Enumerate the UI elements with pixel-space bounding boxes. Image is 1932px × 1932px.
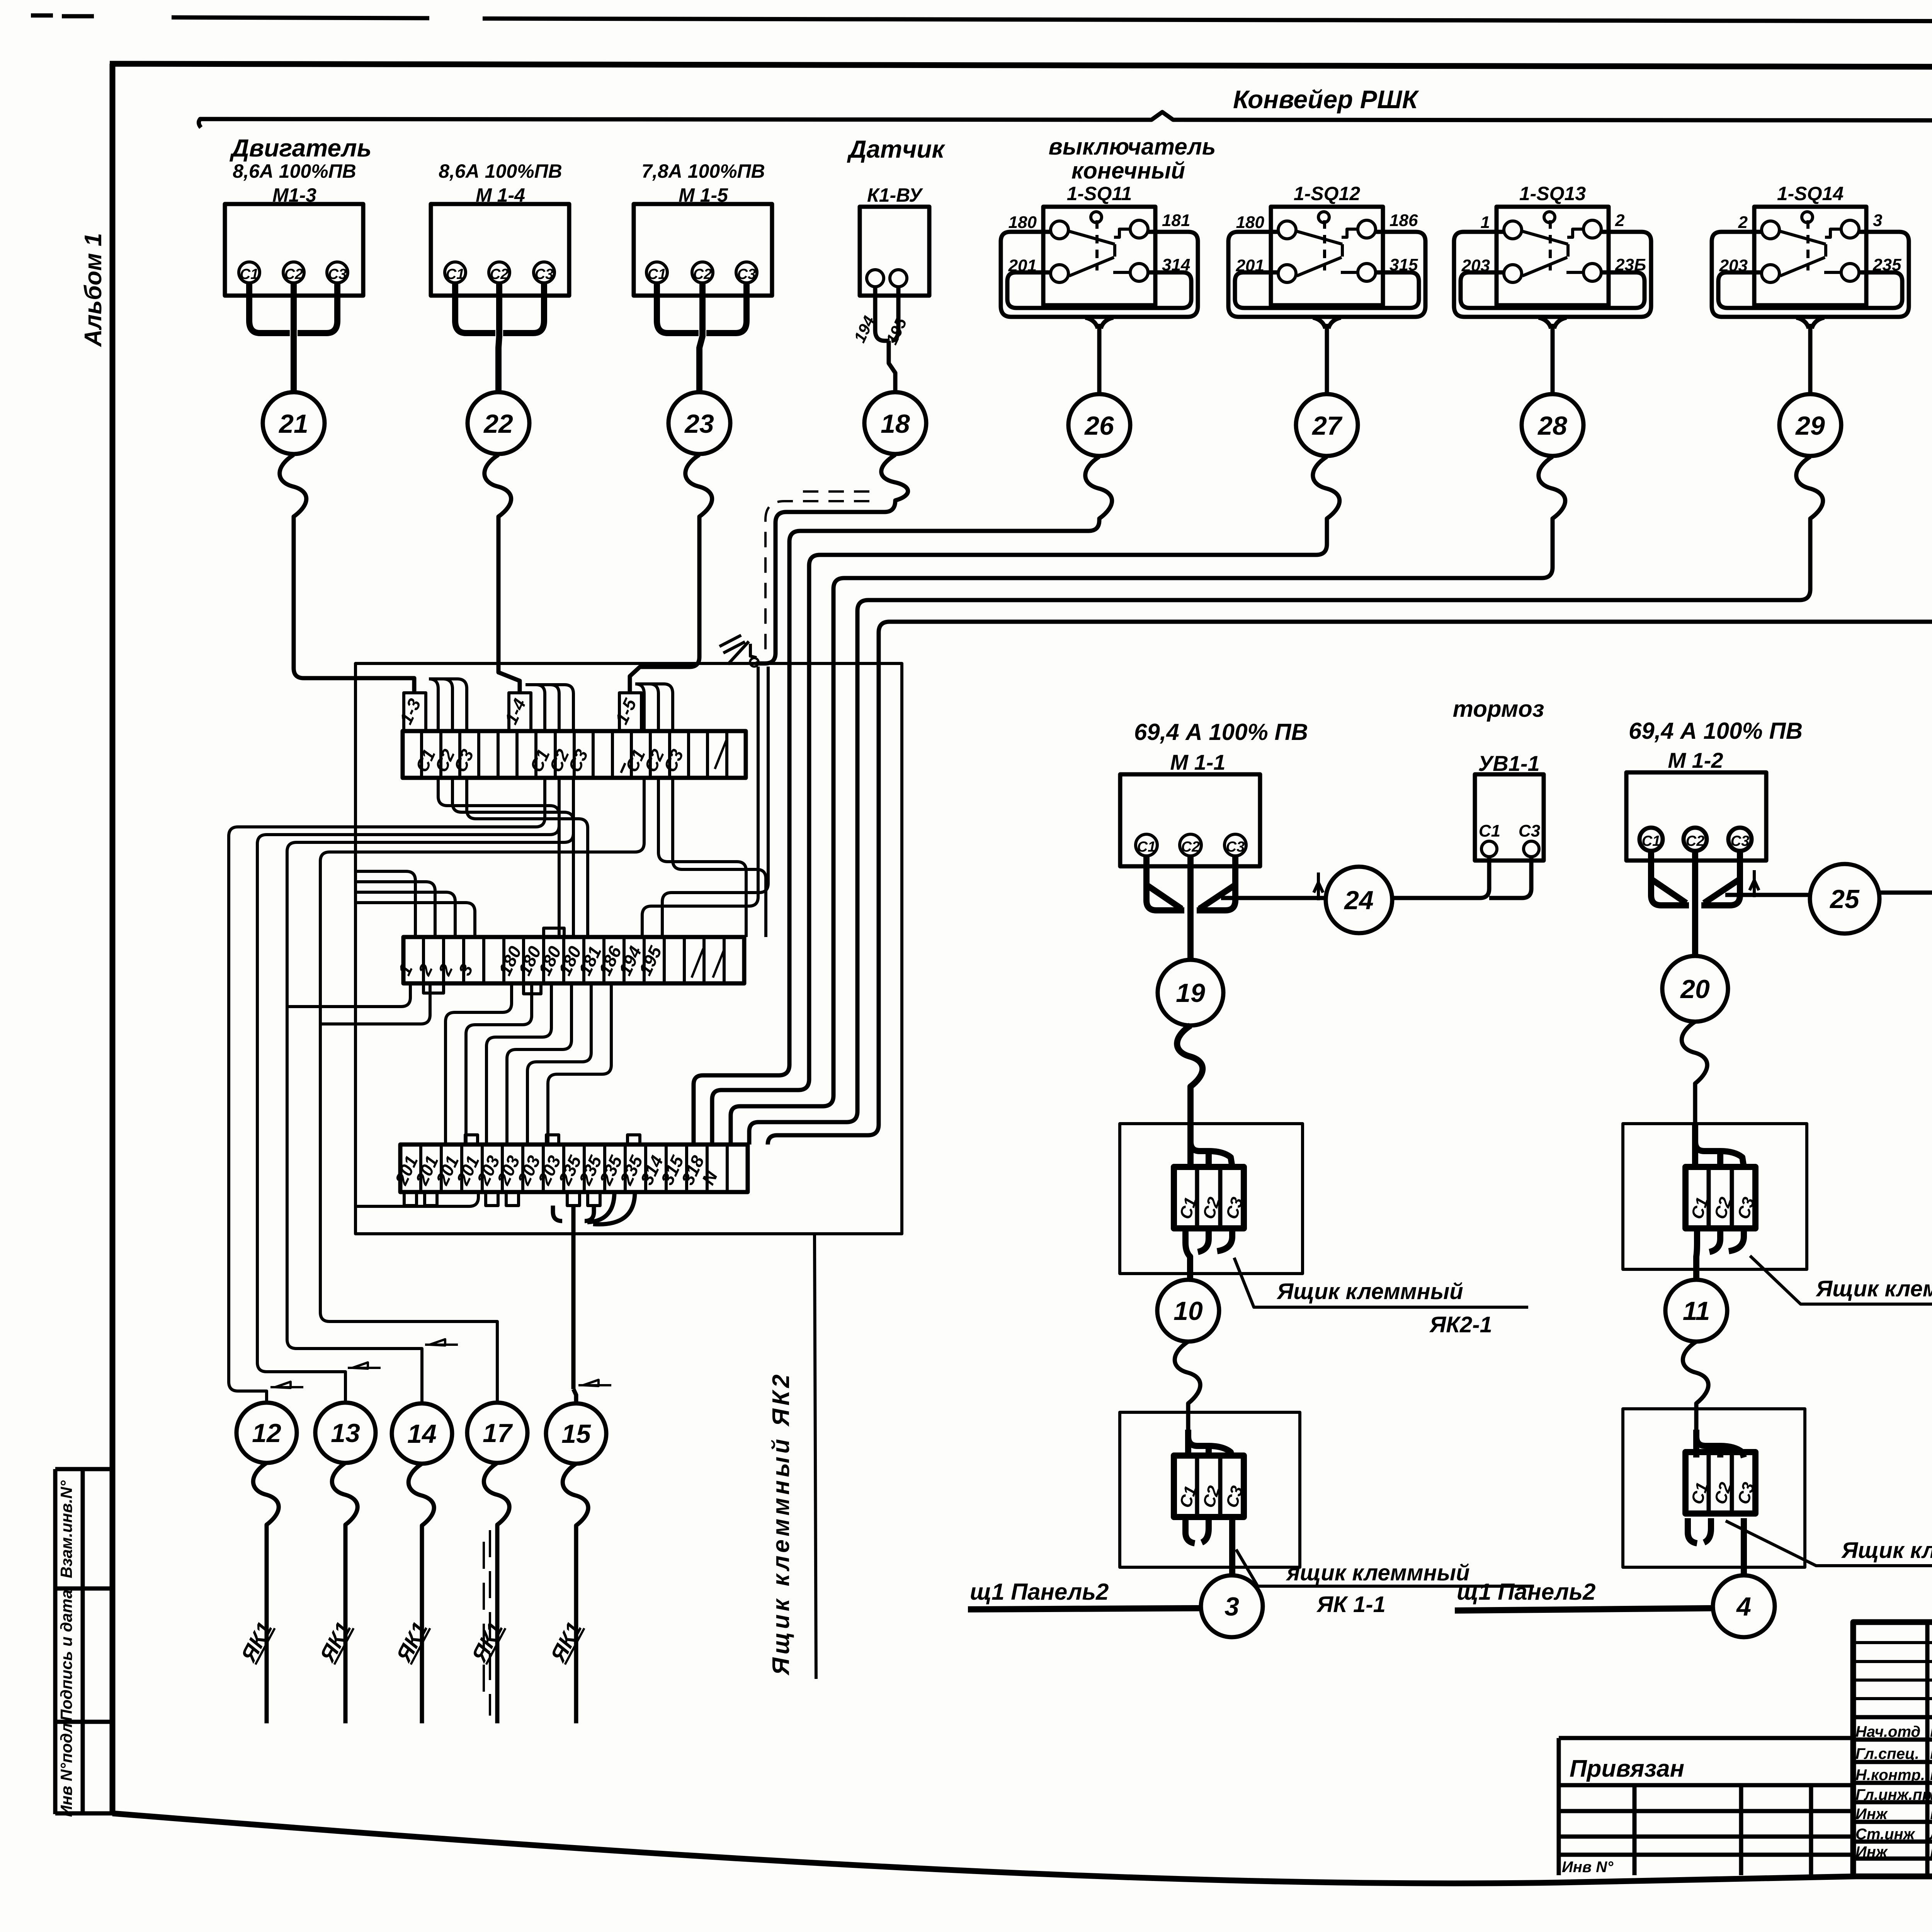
- direction arrow: [348, 1362, 381, 1369]
- svg-text:201: 201: [1008, 256, 1037, 275]
- svg-text:69,4 А 100% ПВ: 69,4 А 100% ПВ: [1134, 719, 1308, 745]
- svg-text:28: 28: [1537, 411, 1567, 440]
- cable circle 18: [864, 392, 926, 454]
- limit switch 1-SQ14: [1712, 183, 1909, 393]
- wire from circle 21 to terminal strip: [280, 455, 414, 693]
- svg-text:С2: С2: [284, 266, 303, 282]
- svg-text:11: 11: [1683, 1296, 1710, 1326]
- svg-text:2: 2: [1738, 213, 1748, 232]
- svg-text:К1-ВУ: К1-ВУ: [867, 184, 923, 206]
- svg-text:Инв N°: Инв N°: [1562, 1859, 1614, 1876]
- earth symbol at screen junction: [719, 635, 757, 664]
- svg-text:Копп: Копп: [1930, 1844, 1932, 1861]
- svg-text:С1: С1: [648, 266, 667, 282]
- panel link щ1 Панель2 (left): [968, 1579, 1202, 1609]
- svg-text:Альбом 1: Альбом 1: [80, 233, 107, 347]
- svg-text:Нестеренко: Нестеренко: [1930, 1767, 1932, 1784]
- svg-text:выключатель: выключатель: [1049, 134, 1216, 160]
- svg-text:7,8А 100%ПВ: 7,8А 100%ПВ: [641, 160, 765, 182]
- svg-text:С2: С2: [693, 266, 712, 282]
- svg-text:181: 181: [1162, 211, 1190, 230]
- svg-text:ЯК 1-1: ЯК 1-1: [1316, 1592, 1386, 1617]
- svg-text:10: 10: [1173, 1296, 1203, 1326]
- svg-text:УВ1-1: УВ1-1: [1478, 751, 1539, 776]
- svg-text:Конвейер РШК: Конвейер РШК: [1233, 85, 1419, 114]
- svg-text:Ст.инж: Ст.инж: [1855, 1826, 1916, 1843]
- cable circle 12: [236, 1403, 297, 1463]
- svg-text:201: 201: [1236, 256, 1264, 275]
- svg-text:235: 235: [1872, 255, 1901, 274]
- tail wire of cable 17: [484, 1463, 509, 1723]
- svg-text:1-3: 1-3: [396, 696, 425, 728]
- svg-text:18: 18: [881, 409, 910, 439]
- cable circle 13: [315, 1403, 376, 1463]
- limit switch 1-SQ11: [1001, 183, 1198, 393]
- label Ящик клеммный ЯК1-2: [1726, 1521, 1932, 1566]
- svg-text:14: 14: [407, 1419, 437, 1449]
- screen dashed lines for circle 18 cable: [765, 501, 869, 657]
- svg-text:22: 22: [483, 409, 513, 439]
- strip 1 fan wires group 3: [635, 684, 673, 731]
- label ящик клеммный ЯК1-1: [1236, 1549, 1534, 1617]
- strip 1 fan wires group 2: [526, 685, 573, 731]
- wire from circle 18 (screened): [756, 455, 908, 663]
- svg-text:ящик клеммный: ящик клеммный: [1286, 1560, 1470, 1585]
- svg-text:Гл.инж.пр: Гл.инж.пр: [1855, 1786, 1932, 1803]
- cable circle 3: [1201, 1575, 1263, 1637]
- clamp box ЯК1-2: [1623, 1409, 1805, 1567]
- svg-text:314: 314: [1162, 255, 1190, 274]
- cable circle 29: [1779, 394, 1841, 456]
- svg-text:С3: С3: [564, 746, 592, 776]
- cable circle 26: [1068, 394, 1130, 456]
- svg-text:3: 3: [1225, 1592, 1239, 1621]
- svg-text:Нестеренко: Нестеренко: [1930, 1745, 1932, 1762]
- direction arrow: [578, 1380, 611, 1386]
- motor М1-1: [1120, 719, 1325, 960]
- svg-text:Привязан: Привязан: [1570, 1755, 1684, 1782]
- svg-text:ЯК2-1: ЯК2-1: [1429, 1312, 1492, 1337]
- motor М 1-5: [634, 160, 772, 392]
- svg-text:19: 19: [1176, 978, 1205, 1008]
- wire from circle 30 to clamp box strip: [768, 447, 1932, 1145]
- svg-text:Гл.спец.: Гл.спец.: [1855, 1745, 1919, 1762]
- tail of cable 11: [1683, 1342, 1708, 1458]
- cable circle 28: [1522, 394, 1583, 456]
- svg-text:С1: С1: [446, 266, 465, 282]
- cable circle 24: [1326, 867, 1392, 933]
- svg-text:ЯК1: ЯК1: [236, 1618, 277, 1666]
- cable circle 15: [546, 1403, 606, 1464]
- clamp box ЯК1-1: [1120, 1412, 1300, 1567]
- svg-text:Н.контр.: Н.контр.: [1855, 1767, 1925, 1784]
- svg-text:конечный: конечный: [1071, 158, 1185, 184]
- svg-text:С3: С3: [1731, 833, 1750, 849]
- svg-text:М 1-1: М 1-1: [1170, 750, 1225, 774]
- svg-text:Двигатель: Двигатель: [229, 134, 371, 162]
- svg-text:1-5: 1-5: [611, 695, 641, 728]
- svg-text:Подпись и дата: Подпись и дата: [57, 1590, 75, 1721]
- direction arrow: [270, 1382, 303, 1388]
- label Ящик клеммный ЯК2-1: [1234, 1258, 1528, 1337]
- cable circle 20: [1662, 956, 1728, 1022]
- svg-text:С3: С3: [737, 266, 756, 282]
- svg-text:Никитин: Никитин: [1930, 1723, 1932, 1740]
- wires strip1 group3: [320, 778, 644, 1403]
- svg-text:17: 17: [483, 1418, 513, 1448]
- svg-text:29: 29: [1795, 411, 1825, 440]
- svg-text:20: 20: [1680, 975, 1710, 1004]
- svg-text:24: 24: [1344, 886, 1374, 915]
- sensor Датчик К1-ВУ: [847, 135, 946, 392]
- limit switch 1-SQ12: [1228, 183, 1425, 393]
- svg-text:1-SQ12: 1-SQ12: [1294, 183, 1361, 204]
- svg-text:8,6А 100%ПВ: 8,6А 100%ПВ: [439, 160, 562, 182]
- svg-text:25: 25: [1829, 884, 1860, 914]
- svg-text:180: 180: [1009, 213, 1037, 232]
- wire strip2 cell to strip3 #4: [507, 983, 571, 1145]
- tail of cable 10: [1175, 1342, 1200, 1458]
- svg-text:69,4 А 100% ПВ: 69,4 А 100% ПВ: [1629, 718, 1803, 744]
- cable circle 22: [468, 392, 529, 454]
- svg-text:С2: С2: [1181, 839, 1200, 855]
- cable circle 27: [1296, 394, 1358, 456]
- clamp box ЯК2 outline: [355, 663, 902, 1234]
- svg-text:3: 3: [454, 961, 477, 979]
- svg-text:2: 2: [1615, 211, 1625, 230]
- svg-text:180: 180: [1236, 213, 1265, 232]
- svg-text:23: 23: [684, 409, 714, 439]
- brake УВ1-1: [1392, 696, 1544, 898]
- wire from circle 27 to clamp box strip: [712, 457, 1340, 1145]
- svg-text:ЯК1: ЯК1: [391, 1618, 432, 1666]
- cable circle 19: [1158, 960, 1223, 1026]
- svg-text:203: 203: [1719, 256, 1748, 275]
- funnel from strip3 to cable 15: [553, 1192, 635, 1403]
- svg-text:Нач.отд: Нач.отд: [1855, 1723, 1920, 1740]
- wire from circle 26 to clamp box strip: [694, 457, 1112, 1145]
- wires inside ЯК2-1: [1177, 1026, 1232, 1167]
- svg-text:С1: С1: [1137, 839, 1156, 855]
- svg-text:1-SQ13: 1-SQ13: [1519, 183, 1586, 204]
- svg-text:Ящик клеммный ЯК2: Ящик клеммный ЯК2: [768, 1371, 794, 1676]
- wire circle20 to ЯК2-2: [1682, 1022, 1707, 1160]
- motor М 1-4: [431, 160, 569, 392]
- wire from circle 28 to clamp box strip: [731, 457, 1565, 1145]
- tail wire of cable 13: [332, 1463, 357, 1723]
- svg-text:Инж: Инж: [1855, 1844, 1888, 1861]
- svg-text:Бобрик: Бобрик: [1930, 1786, 1932, 1803]
- svg-text:С1: С1: [1479, 821, 1500, 840]
- tail wire of cable 14: [408, 1464, 434, 1723]
- cable circle 17: [467, 1403, 527, 1463]
- svg-text:С3: С3: [1226, 839, 1245, 855]
- attachment block Привязан: [1559, 1738, 1853, 1876]
- svg-text:2: 2: [434, 961, 457, 979]
- svg-text:Взам.инв.N°: Взам.инв.N°: [57, 1480, 75, 1578]
- panel link щ1 Панель2 (right): [1455, 1579, 1714, 1611]
- clamp box ЯК2-2: [1623, 1124, 1807, 1269]
- svg-text:Ящик клеммный: Ящик клеммный: [1276, 1279, 1463, 1304]
- svg-text:М 1-2: М 1-2: [1668, 748, 1723, 772]
- Конвейер РШК bracket: [199, 85, 1932, 130]
- svg-text:Инв N°подл.: Инв N°подл.: [57, 1719, 75, 1817]
- svg-text:С3: С3: [535, 266, 554, 282]
- wires strip1 group1 down to strip2: [438, 778, 559, 937]
- cable circle 23: [668, 392, 730, 454]
- wire strip2 cell to strip3 #3: [486, 983, 551, 1145]
- svg-text:315: 315: [1389, 255, 1418, 274]
- svg-text:203: 203: [1461, 256, 1490, 275]
- svg-text:4: 4: [1736, 1592, 1751, 1621]
- svg-text:Петухова: Петухова: [1930, 1806, 1932, 1823]
- svg-text:С3: С3: [328, 266, 347, 282]
- label Ящик клеммный ЯК2-2: [1750, 1256, 1932, 1304]
- svg-text:щ1 Панель2: щ1 Панель2: [970, 1579, 1109, 1605]
- left stamp box: Взам.инв.№: [55, 1469, 112, 1814]
- svg-text:15: 15: [561, 1419, 591, 1449]
- svg-text:тормоз: тормоз: [1453, 696, 1544, 722]
- svg-text:2: 2: [414, 961, 437, 979]
- svg-text:ЯК1: ЯК1: [466, 1618, 508, 1666]
- left stamp box: Подпись и дата: [55, 1590, 112, 1722]
- wire strip2 cell to strip3 #5: [527, 983, 591, 1145]
- motor М1-3: [225, 160, 363, 392]
- wires strip2 cells down-left to bundle: [287, 983, 410, 1007]
- svg-text:С2: С2: [1686, 833, 1705, 849]
- svg-text:Инж: Инж: [1855, 1806, 1888, 1823]
- wires strip2 cells 1-3 upper links: [355, 871, 415, 937]
- svg-text:26: 26: [1084, 411, 1114, 440]
- svg-text:21: 21: [278, 409, 308, 439]
- wire strip2 cell to strip3 #6: [548, 983, 611, 1145]
- terminal strip 1: [396, 693, 746, 778]
- blank cell ticks strip1: [621, 740, 726, 773]
- svg-text:С3: С3: [660, 746, 687, 776]
- sheet top edge line: [31, 15, 1932, 22]
- wire from circle 22 to terminal strip: [485, 455, 520, 693]
- svg-text:186: 186: [1389, 211, 1418, 230]
- wires inside ЯК1-2: [1696, 1430, 1744, 1458]
- limit switch 1-SQ13: [1454, 183, 1651, 393]
- motor М1-2: [1626, 718, 1810, 956]
- wires inside ЯК1-1: [1188, 1430, 1232, 1458]
- tail wire of cable 12: [253, 1463, 279, 1723]
- blank cell ticks strip2: [692, 949, 724, 978]
- svg-text:С1: С1: [240, 266, 259, 282]
- cable circle 25: [1810, 864, 1879, 934]
- tail wire of cable 15: [563, 1464, 588, 1723]
- svg-text:Ящик клеммный ЯК1-2: Ящик клеммный ЯК1-2: [1841, 1538, 1932, 1563]
- svg-text:1: 1: [1481, 213, 1490, 232]
- svg-text:Датчик: Датчик: [847, 135, 946, 163]
- svg-text:1-SQ14: 1-SQ14: [1777, 183, 1844, 204]
- cable circle 21: [263, 392, 325, 454]
- svg-text:195: 195: [635, 942, 666, 978]
- brake УВ1-2: [1879, 702, 1932, 893]
- lower horizontal wire to strip3 tab: [355, 1192, 478, 1206]
- svg-text:С3: С3: [1519, 821, 1540, 840]
- cable circle 11: [1665, 1280, 1727, 1342]
- svg-text:С2: С2: [490, 266, 509, 282]
- svg-text:Ящик клеммный ЯК2-2: Ящик клеммный ЯК2-2: [1815, 1276, 1932, 1301]
- cable circle 4: [1713, 1575, 1775, 1637]
- svg-text:ЯК1: ЯК1: [315, 1618, 356, 1666]
- svg-text:1-4: 1-4: [501, 696, 530, 727]
- terminal strip 2: [394, 928, 744, 994]
- screen dashes on cable 17 tail: [484, 1530, 490, 1716]
- svg-text:27: 27: [1311, 411, 1343, 440]
- wire from circle 23 to terminal strip: [630, 455, 712, 693]
- svg-text:13: 13: [331, 1418, 360, 1448]
- svg-text:щ1 Панель2: щ1 Панель2: [1457, 1579, 1595, 1605]
- title block outline: [1853, 1622, 1932, 1876]
- strip 1 fan wires group 1: [429, 679, 467, 731]
- wires 194 195 from screen junction down to strip2: [662, 667, 768, 937]
- wire strip2 cell to strip3 #2: [466, 983, 532, 1145]
- direction arrow: [425, 1339, 458, 1345]
- wires strip1 group2 down-left to cable bundle: [229, 778, 545, 1403]
- wires inside ЯК2-2: [1695, 1124, 1744, 1167]
- signature rows: [1855, 1720, 1932, 1861]
- svg-text:С1: С1: [1642, 833, 1661, 849]
- terminal strip 3: [391, 1135, 748, 1206]
- svg-text:3: 3: [1873, 211, 1882, 230]
- wire strip2 cell to strip3 #1: [446, 983, 512, 1145]
- svg-text:8,6А 100%ПВ: 8,6А 100%ПВ: [233, 160, 356, 182]
- cable circle 10: [1157, 1280, 1219, 1342]
- svg-text:12: 12: [252, 1418, 281, 1448]
- left stamp box: Инв № подл.: [55, 1719, 112, 1817]
- clamp box ЯК2-1: [1120, 1124, 1303, 1274]
- clamp box ЯК2 vertical label: [815, 1235, 816, 1679]
- svg-text:С3: С3: [450, 746, 478, 776]
- cable circle 14: [392, 1403, 452, 1464]
- svg-text:23Б: 23Б: [1615, 255, 1646, 274]
- wire from circle 29 to clamp box strip: [749, 457, 1823, 1145]
- svg-text:ЯК1: ЯК1: [545, 1618, 587, 1666]
- svg-text:1-SQ11: 1-SQ11: [1067, 183, 1132, 204]
